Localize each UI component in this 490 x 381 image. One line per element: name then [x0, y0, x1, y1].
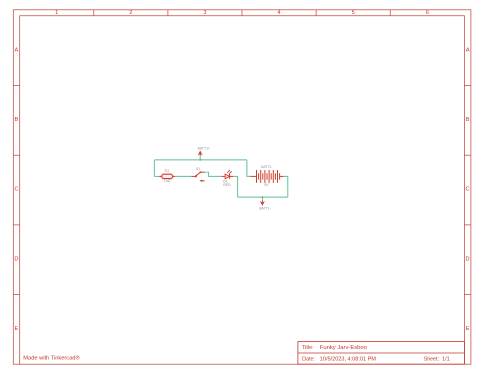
svg-text:3: 3	[203, 10, 206, 16]
switch actuator arrow	[199, 180, 202, 182]
wire bottom rail BATT-	[238, 196, 288, 198]
wire S1 step	[205, 172, 221, 176]
svg-text:A: A	[15, 47, 19, 53]
LED light arrows	[227, 171, 231, 175]
row letters left	[14, 47, 18, 332]
svg-text:6: 6	[426, 10, 429, 16]
wire LED to corner	[233, 176, 238, 197]
svg-text:RED: RED	[223, 183, 231, 187]
svg-text:C: C	[14, 187, 18, 193]
wire R1 to S1	[175, 175, 191, 177]
svg-text:Sheet: 1/1: Sheet: 1/1	[424, 356, 450, 362]
right row tick 4	[464, 294, 471, 296]
wire left vertical	[153, 160, 155, 177]
wire stub BATT- flag	[261, 197, 263, 201]
row letters right	[466, 47, 470, 332]
wire stub BATT+ flag	[199, 155, 201, 160]
left row tick 3	[13, 224, 19, 226]
top column tick 2	[167, 10, 169, 16]
svg-text:B: B	[466, 117, 470, 123]
svg-text:Funky Jarv-Esboo: Funky Jarv-Esboo	[320, 345, 367, 351]
switch S1	[191, 172, 204, 176]
wires	[154, 155, 287, 202]
svg-text:BATT1+: BATT1+	[198, 146, 210, 150]
left row tick 1	[13, 85, 19, 87]
svg-text:1: 1	[55, 10, 58, 16]
left row tick 4	[13, 294, 19, 296]
right row tick 1	[464, 85, 471, 87]
svg-text:10/5/2023, 4:08:01 PM: 10/5/2023, 4:08:01 PM	[320, 356, 377, 362]
svg-text:9V: 9V	[264, 183, 269, 187]
svg-text:5: 5	[352, 10, 355, 16]
wire right up to battery	[284, 176, 288, 197]
battery BATT1	[250, 170, 283, 183]
wire to R1 left	[154, 175, 159, 177]
net flag BATT+ arrow	[198, 150, 203, 155]
column numbers top	[55, 10, 429, 16]
top column tick 4	[315, 10, 317, 16]
svg-text:S1: S1	[196, 167, 200, 171]
node junction BATT-	[262, 196, 264, 198]
svg-text:C: C	[466, 187, 470, 193]
top column tick 3	[241, 10, 243, 16]
top column tick 5	[389, 10, 391, 16]
right row tick 2	[464, 154, 471, 156]
svg-text:A: A	[466, 47, 470, 53]
svg-text:BATT1: BATT1	[261, 165, 271, 169]
LED D1	[221, 170, 233, 179]
svg-text:R1: R1	[165, 169, 169, 173]
svg-text:Title:: Title:	[302, 345, 313, 351]
svg-text:4: 4	[277, 10, 280, 16]
battery plates	[256, 170, 258, 183]
title block	[298, 342, 465, 365]
wire top rail BATT+	[154, 159, 247, 161]
svg-text:1 kΩ: 1 kΩ	[163, 179, 171, 183]
node junction BATT+	[199, 159, 201, 161]
net flag BATT- arrow	[260, 201, 265, 206]
resistor R1	[159, 174, 175, 180]
svg-text:E: E	[466, 326, 470, 332]
right row tick 3	[464, 224, 471, 226]
svg-text:B: B	[15, 117, 19, 123]
wire rail down to battery left	[247, 160, 251, 177]
svg-text:E: E	[15, 326, 19, 332]
svg-text:Made with Tinkercad®: Made with Tinkercad®	[23, 355, 80, 362]
svg-text:D: D	[14, 256, 18, 262]
svg-text:Date:: Date:	[302, 356, 315, 362]
svg-text:D: D	[466, 256, 470, 262]
svg-text:2: 2	[129, 10, 132, 16]
top column tick 1	[93, 10, 95, 16]
left row tick 2	[13, 154, 19, 156]
svg-text:BATT1-: BATT1-	[259, 206, 270, 210]
